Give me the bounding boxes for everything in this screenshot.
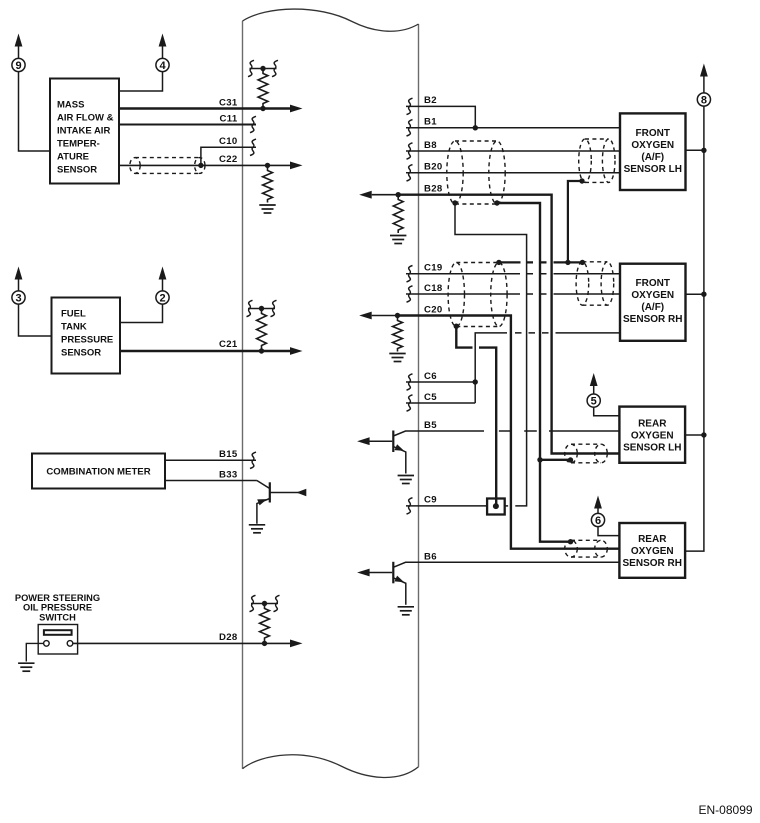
svg-text:B2: B2 (424, 95, 437, 106)
svg-text:C10: C10 (219, 136, 238, 147)
svg-text:SENSOR LH: SENSOR LH (623, 442, 681, 453)
svg-text:3: 3 (15, 293, 21, 305)
svg-text:C18: C18 (424, 283, 443, 294)
svg-text:B15: B15 (219, 449, 238, 460)
svg-text:AIR FLOW &: AIR FLOW & (57, 113, 114, 124)
svg-text:SENSOR: SENSOR (57, 165, 97, 176)
svg-text:PRESSURE: PRESSURE (61, 335, 113, 346)
svg-text:4: 4 (159, 60, 166, 72)
svg-text:OIL PRESSURE: OIL PRESSURE (23, 602, 92, 612)
svg-text:INTAKE AIR: INTAKE AIR (57, 126, 110, 137)
svg-text:C9: C9 (424, 495, 437, 506)
svg-text:(A/F): (A/F) (641, 302, 664, 313)
svg-text:C6: C6 (424, 371, 437, 382)
svg-text:(A/F): (A/F) (641, 152, 664, 163)
svg-text:D28: D28 (219, 632, 238, 643)
svg-text:SENSOR RH: SENSOR RH (623, 558, 682, 569)
svg-text:B28: B28 (424, 184, 443, 195)
svg-text:SENSOR: SENSOR (61, 348, 101, 359)
svg-text:FUEL: FUEL (61, 309, 86, 320)
svg-text:B8: B8 (424, 140, 437, 151)
svg-text:TANK: TANK (61, 322, 87, 333)
svg-text:SENSOR RH: SENSOR RH (623, 314, 682, 325)
svg-text:C11: C11 (220, 113, 238, 124)
svg-text:SENSOR LH: SENSOR LH (624, 164, 682, 175)
svg-text:REAR: REAR (638, 418, 667, 429)
svg-text:OXYGEN: OXYGEN (631, 430, 674, 441)
svg-text:FRONT: FRONT (636, 278, 670, 289)
svg-text:EN-08099: EN-08099 (699, 803, 753, 817)
svg-text:B1: B1 (424, 117, 437, 128)
svg-text:B6: B6 (424, 551, 437, 562)
svg-text:SWITCH: SWITCH (39, 613, 76, 623)
svg-text:B20: B20 (424, 162, 443, 173)
svg-text:C20: C20 (424, 304, 443, 315)
svg-text:POWER STEERING: POWER STEERING (15, 593, 100, 603)
svg-text:C21: C21 (219, 339, 238, 350)
svg-text:2: 2 (159, 293, 165, 305)
svg-text:6: 6 (595, 515, 601, 527)
svg-text:TEMPER-: TEMPER- (57, 139, 100, 150)
svg-text:C22: C22 (219, 154, 238, 165)
svg-text:ATURE: ATURE (57, 152, 89, 163)
svg-text:B33: B33 (219, 469, 238, 480)
svg-text:B5: B5 (424, 420, 437, 431)
svg-text:8: 8 (701, 95, 707, 107)
svg-text:C5: C5 (424, 392, 437, 403)
svg-text:C31: C31 (219, 97, 238, 108)
svg-text:COMBINATION METER: COMBINATION METER (46, 467, 150, 478)
svg-text:OXYGEN: OXYGEN (631, 546, 674, 557)
svg-text:MASS: MASS (57, 100, 84, 111)
svg-text:OXYGEN: OXYGEN (631, 290, 674, 301)
svg-text:9: 9 (15, 60, 21, 72)
svg-text:OXYGEN: OXYGEN (631, 140, 674, 151)
svg-text:5: 5 (591, 396, 597, 408)
svg-text:C19: C19 (424, 263, 443, 274)
svg-text:REAR: REAR (638, 534, 667, 545)
svg-text:FRONT: FRONT (636, 128, 670, 139)
